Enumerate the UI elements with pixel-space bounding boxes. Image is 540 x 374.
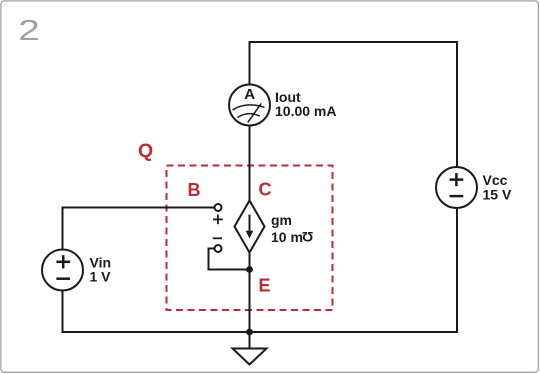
bottom bus wire bbox=[63, 331, 458, 333]
wire control loop to node E bbox=[209, 249, 247, 270]
dependent current source gm (diamond) bbox=[235, 201, 265, 253]
terminal B (open circle) bbox=[215, 204, 222, 211]
polarity plus (control port) bbox=[213, 215, 223, 225]
svg-text:E: E bbox=[259, 276, 271, 296]
ground bbox=[233, 332, 267, 365]
svg-text:10 m: 10 m bbox=[271, 229, 303, 245]
wire top bus bbox=[250, 41, 458, 43]
wire current source to bottom bus bbox=[249, 253, 251, 333]
wire ammeter top bbox=[249, 41, 251, 85]
svg-text:15 V: 15 V bbox=[483, 186, 512, 202]
svg-text:B: B bbox=[188, 180, 201, 200]
svg-text:10.00 mA: 10.00 mA bbox=[275, 103, 336, 119]
sheet label 2 bbox=[18, 15, 39, 47]
voltage source Vin bbox=[42, 250, 83, 291]
wire ammeter to current source bbox=[249, 126, 251, 201]
svg-text:1 V: 1 V bbox=[90, 269, 112, 285]
svg-text:gm: gm bbox=[271, 212, 292, 228]
svg-text:2: 2 bbox=[18, 15, 39, 47]
junction node E bbox=[246, 266, 253, 273]
wire Vin to B terminal bbox=[63, 207, 215, 209]
wire Vcc bottom bbox=[456, 208, 458, 334]
polarity minus (control port) bbox=[213, 237, 222, 239]
wire Vin top riser bbox=[62, 207, 64, 250]
svg-text:A: A bbox=[244, 86, 255, 103]
svg-text:C: C bbox=[259, 180, 272, 200]
wire Vcc top riser bbox=[456, 41, 458, 167]
voltage source Vcc bbox=[436, 167, 477, 208]
wire Vin bottom bbox=[62, 291, 64, 334]
transistor boundary Q (dashed box) bbox=[167, 166, 333, 311]
terminal E' (open circle) bbox=[215, 245, 222, 252]
ammeter Iout bbox=[229, 85, 270, 126]
junction bottom (ground node) bbox=[246, 329, 253, 336]
svg-text:Ω: Ω bbox=[302, 229, 313, 245]
svg-text:Q: Q bbox=[138, 140, 153, 162]
